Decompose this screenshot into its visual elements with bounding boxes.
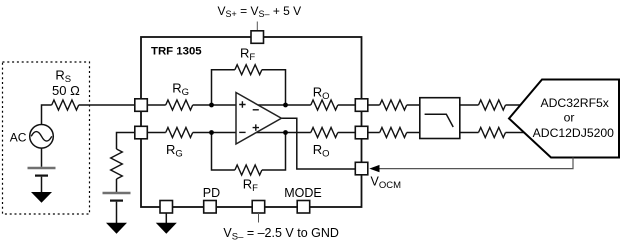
wire Rs to input pad 1 xyxy=(79,104,135,106)
resistor RG bottom xyxy=(166,128,193,138)
wire pad to ground xyxy=(165,213,167,223)
resistor RG top xyxy=(166,100,193,110)
wire resistor to filter top xyxy=(407,104,420,106)
resistor to ADC bottom xyxy=(479,128,506,138)
wire Rg2 row xyxy=(147,132,166,134)
wire Rg1 row xyxy=(147,104,166,106)
wire Vocm from op-amp tip xyxy=(281,118,356,169)
pin pad MODE xyxy=(297,201,310,214)
ground under bottom rail pad xyxy=(156,223,177,234)
wire RO bottom to output pad xyxy=(338,132,356,134)
resistor series bottom xyxy=(380,128,407,138)
op-amp minus output top xyxy=(253,109,259,111)
wire filter to resistor top xyxy=(460,104,479,106)
resistor series top xyxy=(380,100,407,110)
resistor RF bottom xyxy=(235,165,262,175)
op-amp minus input bottom xyxy=(239,131,245,133)
wire capacitor to ground shunt xyxy=(116,202,118,224)
wire output pad2 to series resistor xyxy=(368,132,380,134)
filter block (low-pass) xyxy=(420,98,460,139)
resistor RF top xyxy=(235,65,262,75)
capacitor plate short shunt xyxy=(110,200,123,202)
svg-text:ADC12DJ5200: ADC12DJ5200 xyxy=(533,126,615,140)
capacitor plate short xyxy=(35,175,48,177)
wire output row2 xyxy=(253,132,311,134)
capacitor plate long (gray) xyxy=(28,167,56,170)
pin pad VOCM xyxy=(355,162,368,175)
svg-text:MODE: MODE xyxy=(284,186,322,200)
pin pad input 2 xyxy=(135,126,148,139)
svg-text:50 Ω: 50 Ω xyxy=(52,83,80,98)
pin pad output 1 xyxy=(355,99,368,112)
pin pad Vs+ xyxy=(251,31,264,44)
svg-text:or: or xyxy=(564,111,575,125)
wire resistor to filter bottom xyxy=(407,132,420,134)
AC sine symbol xyxy=(31,132,52,142)
junction dot input bottom xyxy=(209,130,214,135)
resistor to ADC top xyxy=(479,100,506,110)
resistor RO bottom xyxy=(311,128,338,138)
filter low-pass glyph xyxy=(425,114,454,127)
op-amp plus input top xyxy=(239,101,245,107)
wire Rg1 to op-amp xyxy=(193,104,236,106)
pin pad output 2 xyxy=(355,126,368,139)
wire capacitor to ground xyxy=(41,177,43,193)
wire feedback loop top xyxy=(212,70,235,105)
resistor RO top xyxy=(311,100,338,110)
wire stem from Vs+ text to pad xyxy=(256,22,258,32)
wire resistor to ADC top xyxy=(506,104,521,106)
capacitor plate long (gray) shunt xyxy=(103,192,131,195)
junction dot output bottom xyxy=(283,130,288,135)
wire AC source to capacitor xyxy=(41,148,43,167)
pin pad Vs- xyxy=(252,201,265,214)
TRF1305 amplifier box xyxy=(141,37,362,207)
wire resistor to capacitor xyxy=(116,179,118,192)
wire Rg2 to op-amp xyxy=(193,132,236,134)
ground under AC source xyxy=(31,192,52,203)
wire output row1 xyxy=(256,104,311,106)
svg-text:TRF 1305: TRF 1305 xyxy=(151,46,202,58)
wire stem Vs- pad to text xyxy=(258,213,260,223)
resistor RS xyxy=(52,100,79,110)
svg-text:ADC32RF5x: ADC32RF5x xyxy=(540,96,608,110)
wire Vocm feedback from ADC xyxy=(379,158,573,169)
junction dot input top xyxy=(209,103,214,108)
op-amp U1 (fully differential) xyxy=(236,93,281,145)
junction dot output top xyxy=(283,103,288,108)
pin pad input 1 xyxy=(135,99,148,112)
AC source circle xyxy=(30,125,54,149)
wire RO top to output pad xyxy=(338,104,356,106)
wire resistor to ADC bottom xyxy=(506,132,525,134)
ground under shunt branch xyxy=(106,223,127,234)
wire AC source to Rs xyxy=(42,105,52,125)
wire filter to resistor bottom xyxy=(460,132,479,134)
arrowhead into VOCM pad xyxy=(369,165,379,172)
pin pad PD xyxy=(204,201,217,214)
svg-text:AC: AC xyxy=(10,131,27,145)
op-amp plus output bottom xyxy=(253,124,259,130)
wire feedback loop top right xyxy=(262,70,286,105)
wire feedback loop bottom right xyxy=(262,133,286,171)
wire feedback loop bottom xyxy=(212,133,235,171)
svg-text:PD: PD xyxy=(203,186,220,200)
wire output pad1 to series resistor xyxy=(368,104,380,106)
pin pad ground (bottom rail) xyxy=(160,201,173,214)
ADC block (pentagon) xyxy=(509,80,619,158)
resistor shunt (vertical) xyxy=(111,149,123,179)
source enclosure dashed box xyxy=(3,62,90,214)
wire input pad2 to shunt branch xyxy=(117,133,136,150)
